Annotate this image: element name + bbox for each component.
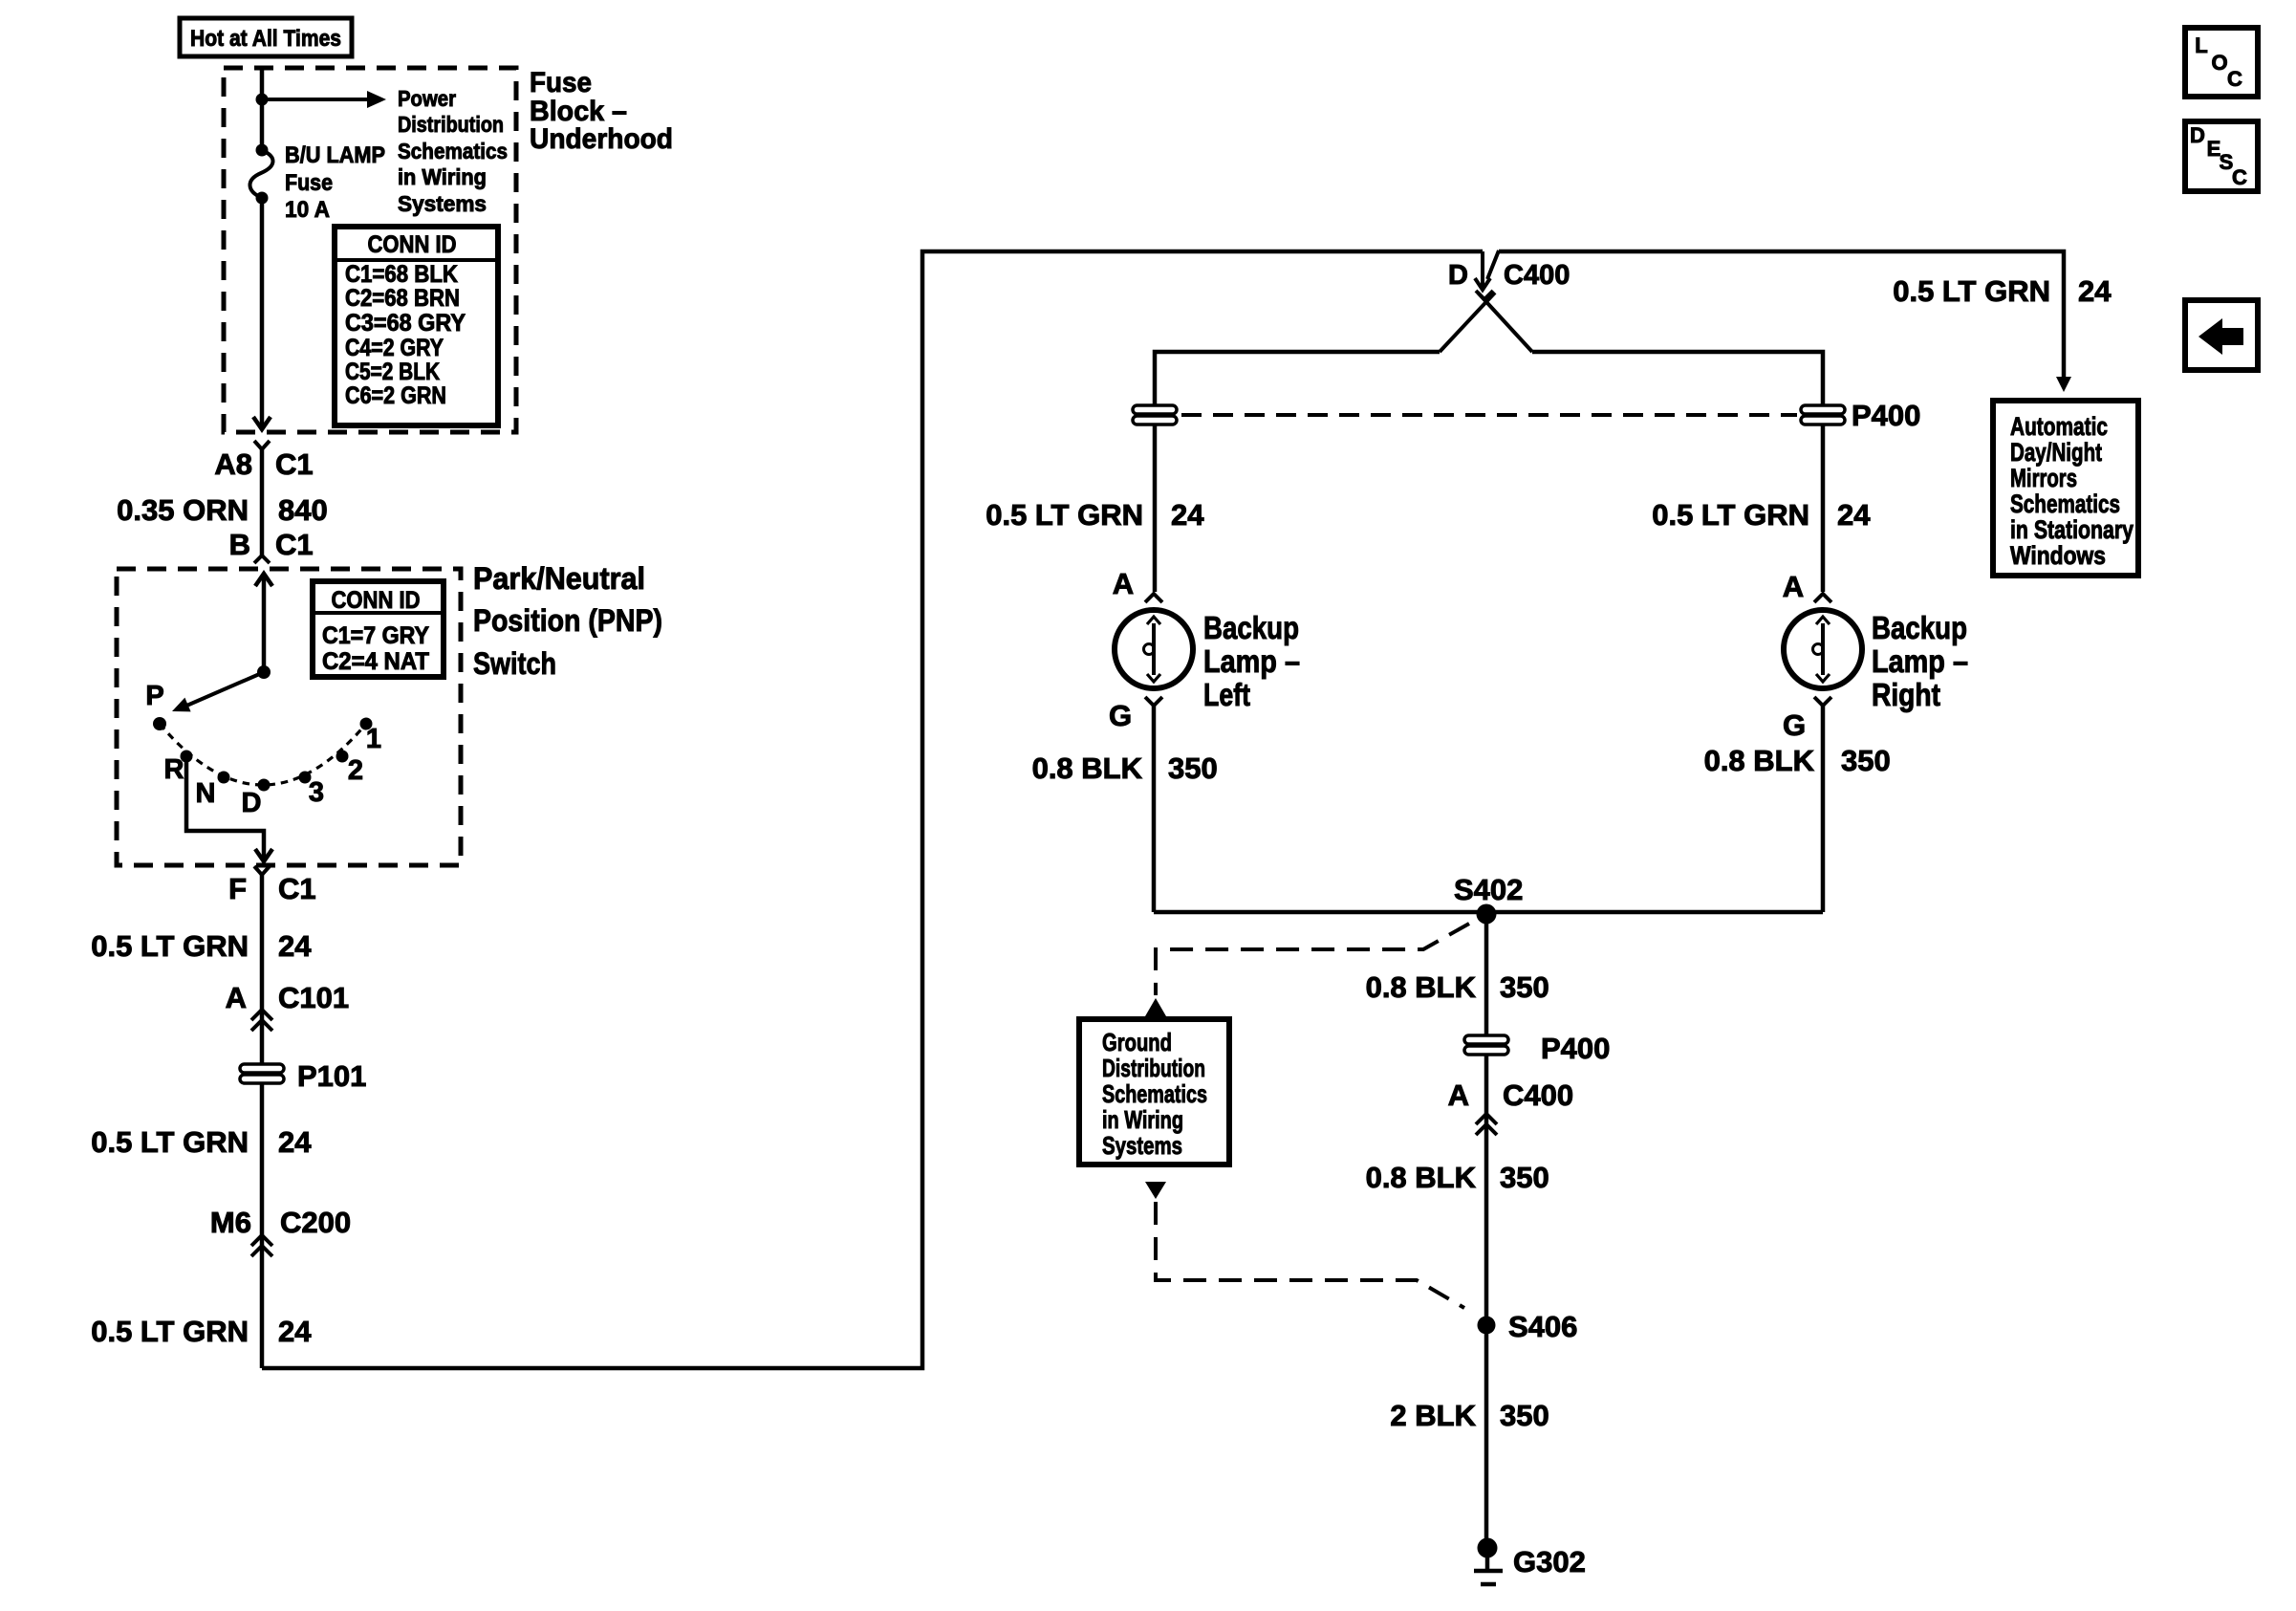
svg-text:2: 2 [348,755,363,786]
svg-text:Automatic: Automatic [2010,412,2108,441]
label: 2 BLK 350 [1390,1399,1549,1432]
connector C1 pin B (male chevron) [254,555,270,563]
connector C101 pin A (double chevron) [251,1010,272,1031]
label: 0.35 ORN 840 [117,493,328,527]
svg-text:Schematics: Schematics [2010,490,2120,518]
connector C400 pin A (double chevron) [1448,1078,1574,1135]
label: 0.5 LT GRN 24 (top right) [1893,274,2112,308]
svg-text:F: F [228,872,247,905]
wire: fuse output down to connector C1 pin A8 [253,198,271,429]
label: D C400 [1448,260,1570,291]
svg-text:3: 3 [309,777,324,808]
svg-text:0.8 BLK: 0.8 BLK [1032,751,1143,785]
label: 0.5 LT GRN 24 (C200 to C400) [91,1315,312,1348]
svg-text:1: 1 [366,724,381,754]
switch contact 3 [299,772,312,784]
wire: run to rear harness riser [262,251,1483,1368]
switch contact D [258,779,271,792]
lamp pin G right (Y symbol) [1783,697,1831,742]
label: 0.8 BLK 350 (left) [1032,751,1218,785]
svg-text:350: 350 [1841,744,1891,777]
svg-text:Distribution: Distribution [1102,1054,1205,1082]
lamp pin A left (chevron) [1113,567,1162,602]
wire: from R contact to pin F [186,762,272,861]
svg-text:in Wiring: in Wiring [398,164,487,189]
svg-text:S406: S406 [1508,1310,1577,1343]
svg-text:840: 840 [278,493,328,527]
label: 0.5 LT GRN 24 (right lamp feed) [1652,498,1871,532]
label: Backup Lamp - Right [1872,610,1968,712]
switch wiper arm to P contact [172,665,271,711]
svg-text:A: A [226,981,247,1014]
grommet P101 [240,1059,366,1093]
svg-text:Mirrors: Mirrors [2010,464,2077,492]
svg-text:in Stationary: in Stationary [2010,515,2134,544]
svg-text:Switch: Switch [473,646,556,681]
svg-text:0.8 BLK: 0.8 BLK [1366,970,1477,1004]
label: Fuse Block - Underhood [530,67,673,155]
svg-text:Systems: Systems [398,191,487,216]
svg-text:CONN ID: CONN ID [332,587,421,614]
svg-text:Distribution: Distribution [398,112,504,137]
svg-text:24: 24 [278,1315,312,1348]
svg-text:C: C [2227,67,2242,91]
svg-text:C3=68 GRY: C3=68 GRY [345,310,466,337]
svg-text:G: G [1783,708,1806,742]
label: Backup Lamp - Left [1203,610,1300,712]
connector table CONN ID (PNP switch) [313,581,444,677]
svg-text:O: O [2211,51,2227,75]
svg-text:R: R [164,754,184,785]
svg-text:350: 350 [1168,751,1218,785]
switch contact 1 [360,718,373,730]
dashed link to ground distribution reference (upper) [1145,924,1469,1016]
svg-text:C1: C1 [275,447,314,481]
label: 0.5 LT GRN 24 (left lamp feed) [986,498,1204,532]
reference box: Ground Distribution Schematics in Wiring Systems [1079,1019,1229,1165]
wire: crossover branch to left backup lamp [1155,293,1495,592]
svg-text:C1=7 GRY: C1=7 GRY [322,622,429,649]
fuse block underhood dashed box [224,68,516,432]
label: A C101 [226,981,350,1014]
splice S406 [1478,1310,1578,1343]
wire: pin B into switch wiper pivot [255,574,272,672]
lamp E1: Backup Lamp Left [1115,610,1193,688]
switch contact 2 [336,751,349,763]
svg-text:P400: P400 [1541,1032,1610,1065]
svg-text:G: G [1109,699,1132,732]
svg-text:Lamp –: Lamp – [1872,643,1968,679]
svg-text:Underhood: Underhood [530,123,673,155]
wire: 0.5 LT GRN 24 (PNP to C101) [260,875,265,1368]
svg-text:24: 24 [278,929,312,963]
svg-text:A8: A8 [214,447,252,481]
connector C1 pin A8 (female Y symbol) [254,441,270,449]
switch contact N [218,772,230,784]
svg-text:in Wiring: in Wiring [1102,1105,1183,1134]
connector C1 pin F (female Y symbol) [254,866,270,875]
svg-text:Windows: Windows [2010,541,2106,570]
svg-text:0.8 BLK: 0.8 BLK [1366,1161,1477,1194]
nav box: DESC [2185,121,2258,191]
svg-text:A: A [1448,1078,1469,1112]
label: B C1 [229,528,314,561]
svg-text:C1=68 BLK: C1=68 BLK [345,261,458,288]
svg-text:G302: G302 [1513,1545,1586,1578]
svg-text:C1: C1 [275,528,314,561]
svg-text:B/U LAMP: B/U LAMP [285,142,385,168]
svg-text:24: 24 [2078,274,2112,308]
label: 0.8 BLK 350 (S402 to P400) [1366,970,1549,1004]
switch contact R [181,751,193,763]
wire: 0.5 LT GRN 24 to mirrors schematics reference [1499,251,2071,392]
svg-text:0.5 LT GRN: 0.5 LT GRN [91,1315,249,1348]
svg-text:0.5 LT GRN: 0.5 LT GRN [1652,498,1809,532]
fuse: B/U LAMP Fuse 10 A [249,144,272,205]
svg-text:Day/Night: Day/Night [2010,438,2102,467]
label: 0.5 LT GRN 24 [91,929,312,963]
svg-text:Fuse: Fuse [530,67,592,98]
connector C400 pin D (arrow + slash) [1475,250,1499,299]
wire: hot feed from bus into fuse [260,68,265,150]
svg-text:350: 350 [1500,1399,1549,1432]
label: 0.5 LT GRN 24 (P101 to C200) [91,1125,312,1159]
svg-text:CONN ID: CONN ID [368,231,457,258]
svg-text:Left: Left [1203,677,1250,712]
lamp pin A right (chevron) [1783,570,1831,603]
svg-text:C2=4 NAT: C2=4 NAT [322,648,429,675]
svg-text:10 A: 10 A [285,197,330,223]
svg-text:D: D [1448,260,1468,291]
svg-text:P: P [145,681,163,711]
svg-text:Position (PNP): Position (PNP) [473,603,662,638]
svg-text:Right: Right [1872,677,1940,712]
wire: 0.35 ORN 840 [260,449,265,555]
svg-text:P101: P101 [297,1059,366,1093]
svg-text:0.5 LT GRN: 0.5 LT GRN [1893,274,2050,308]
svg-text:24: 24 [278,1125,312,1159]
svg-text:C: C [2232,165,2247,189]
svg-text:C400: C400 [1503,1078,1573,1112]
wire: 0.8 BLK 350 left [1152,706,1157,912]
svg-text:M6: M6 [210,1206,251,1239]
switch gate dashed arc [160,724,366,785]
svg-text:350: 350 [1500,970,1549,1004]
svg-text:Ground: Ground [1102,1028,1172,1056]
svg-text:A: A [1113,567,1134,600]
svg-text:D: D [2190,123,2205,147]
svg-text:Power: Power [398,86,456,111]
grommet P400 right [1801,399,1920,432]
svg-text:C5=2 BLK: C5=2 BLK [345,359,440,385]
svg-text:Schematics: Schematics [398,139,508,163]
wire: S402 down to G302 [1484,914,1489,1541]
power source label box: Hot at All Times [180,18,352,56]
svg-text:0.5 LT GRN: 0.5 LT GRN [91,1125,249,1159]
reference box: Automatic Day/Night Mirrors Schematics in Stationary Windows [1993,401,2138,576]
svg-text:L: L [2195,33,2207,57]
svg-text:Fuse: Fuse [285,170,333,196]
ground G302 [1474,1538,1586,1585]
dashed link to ground distribution reference (lower) [1145,1182,1464,1308]
lamp E2: Backup Lamp Right [1784,610,1862,688]
nav box: LOC [2185,28,2258,97]
svg-text:Schematics: Schematics [1102,1079,1207,1108]
switch contact P [153,717,166,730]
PNP switch dashed box [117,569,461,865]
lamp pin G left (Y symbol) [1109,697,1162,732]
svg-text:C6=2 GRN: C6=2 GRN [345,382,446,409]
svg-text:C2=68 BRN: C2=68 BRN [345,285,460,312]
svg-text:0.35 ORN: 0.35 ORN [117,493,249,527]
svg-text:24: 24 [1837,498,1871,532]
dashed grommet link [1181,413,1797,417]
label: B/U LAMP Fuse 10 A [285,142,385,223]
label: F C1 [228,872,316,905]
label: Park/Neutral Position (PNP) Switch [473,561,662,681]
label: 0.8 BLK 350 (C400 to S406) [1366,1161,1549,1194]
wire: 0.8 BLK 350 right [1821,706,1826,912]
svg-text:0.5 LT GRN: 0.5 LT GRN [986,498,1143,532]
wire: ground bus between lamps [1154,910,1823,915]
svg-text:C1: C1 [278,872,316,905]
svg-text:0.8 BLK: 0.8 BLK [1704,744,1815,777]
grommet P400 (floor pan) [1464,1032,1610,1065]
svg-text:C4=2 GRY: C4=2 GRY [345,335,444,361]
svg-text:Park/Neutral: Park/Neutral [473,561,645,596]
svg-text:C101: C101 [278,981,349,1014]
svg-text:0.5 LT GRN: 0.5 LT GRN [91,929,249,963]
label: Power Distribution Schematics in Wiring Systems [398,86,508,216]
svg-text:D: D [242,788,262,818]
svg-text:Backup: Backup [1203,610,1299,645]
svg-text:C400: C400 [1504,260,1570,291]
svg-text:P400: P400 [1852,399,1920,432]
svg-text:C200: C200 [280,1206,351,1239]
connector C200 pin M6 (double chevron) [251,1235,272,1256]
splice S402 [1454,873,1523,925]
svg-text:Hot at All Times: Hot at All Times [190,26,341,52]
connector table CONN ID (fuse block) [335,227,498,425]
svg-text:2 BLK: 2 BLK [1390,1399,1476,1432]
svg-text:A: A [1783,570,1804,603]
label: A8 C1 [214,447,313,481]
wire: crossover branch to right backup lamp [1478,293,1823,592]
svg-text:N: N [196,778,216,809]
svg-text:S402: S402 [1454,873,1523,906]
svg-text:24: 24 [1171,498,1204,532]
node: power distribution tap junction [256,94,269,106]
svg-text:Lamp –: Lamp – [1203,643,1300,679]
label: M6 C200 [210,1206,351,1239]
svg-text:B: B [229,528,250,561]
svg-text:Systems: Systems [1102,1131,1182,1160]
nav box: back arrow [2185,300,2258,370]
svg-text:350: 350 [1500,1161,1549,1194]
grommet P400 left [1133,405,1177,425]
label: 0.8 BLK 350 (right) [1704,744,1891,777]
wire: arrow to power distribution schematics [262,91,386,108]
svg-text:Backup: Backup [1872,610,1967,645]
